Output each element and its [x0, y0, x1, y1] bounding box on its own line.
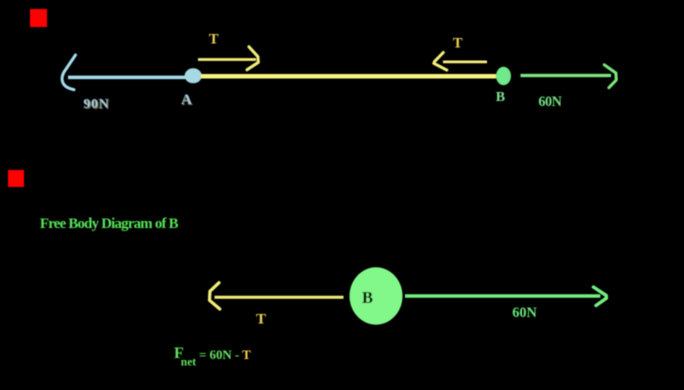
tension arrowhead near A: [247, 47, 258, 70]
svg-text:Free Body Diagram of B: Free Body Diagram of B: [40, 216, 179, 232]
mass point A (blue dot): [185, 68, 202, 83]
body B (green circle): [350, 267, 403, 324]
svg-text:B: B: [496, 90, 505, 105]
60N force line in FBD (green): [405, 294, 600, 298]
svg-text:A: A: [181, 92, 192, 108]
svg-text:90N: 90N: [83, 97, 108, 112]
red marker square mid-left: [8, 170, 24, 187]
arrowhead of 60N force (right, green): [604, 65, 616, 88]
svg-text:B: B: [362, 288, 373, 307]
tension arrow T shaft near A (yellow, pointing right): [198, 58, 256, 61]
tension arrowhead in FBD (yellow, pointing left): [210, 283, 220, 309]
90N force line (blue): [68, 76, 186, 80]
svg-text:= 60N - T: = 60N - T: [199, 347, 251, 362]
tension force line in FBD (yellow): [215, 296, 344, 299]
60N force line (green): [521, 74, 612, 77]
tension arrow T shaft near B (yellow, pointing left): [443, 61, 487, 64]
red marker square top-left: [30, 9, 47, 27]
rope between A and B (yellow): [201, 74, 496, 79]
arrowhead of 60N in FBD (right, green): [593, 287, 606, 306]
svg-text:T: T: [453, 35, 463, 51]
svg-text:60N: 60N: [512, 305, 537, 321]
svg-text:T: T: [209, 31, 219, 47]
mass point B (green dot): [496, 67, 511, 85]
svg-text:T: T: [256, 311, 266, 327]
svg-text:net: net: [181, 357, 197, 369]
arrowhead of 90N force (left, blue): [62, 55, 75, 90]
tension arrowhead near B: [434, 53, 447, 71]
svg-text:60N: 60N: [538, 94, 562, 110]
